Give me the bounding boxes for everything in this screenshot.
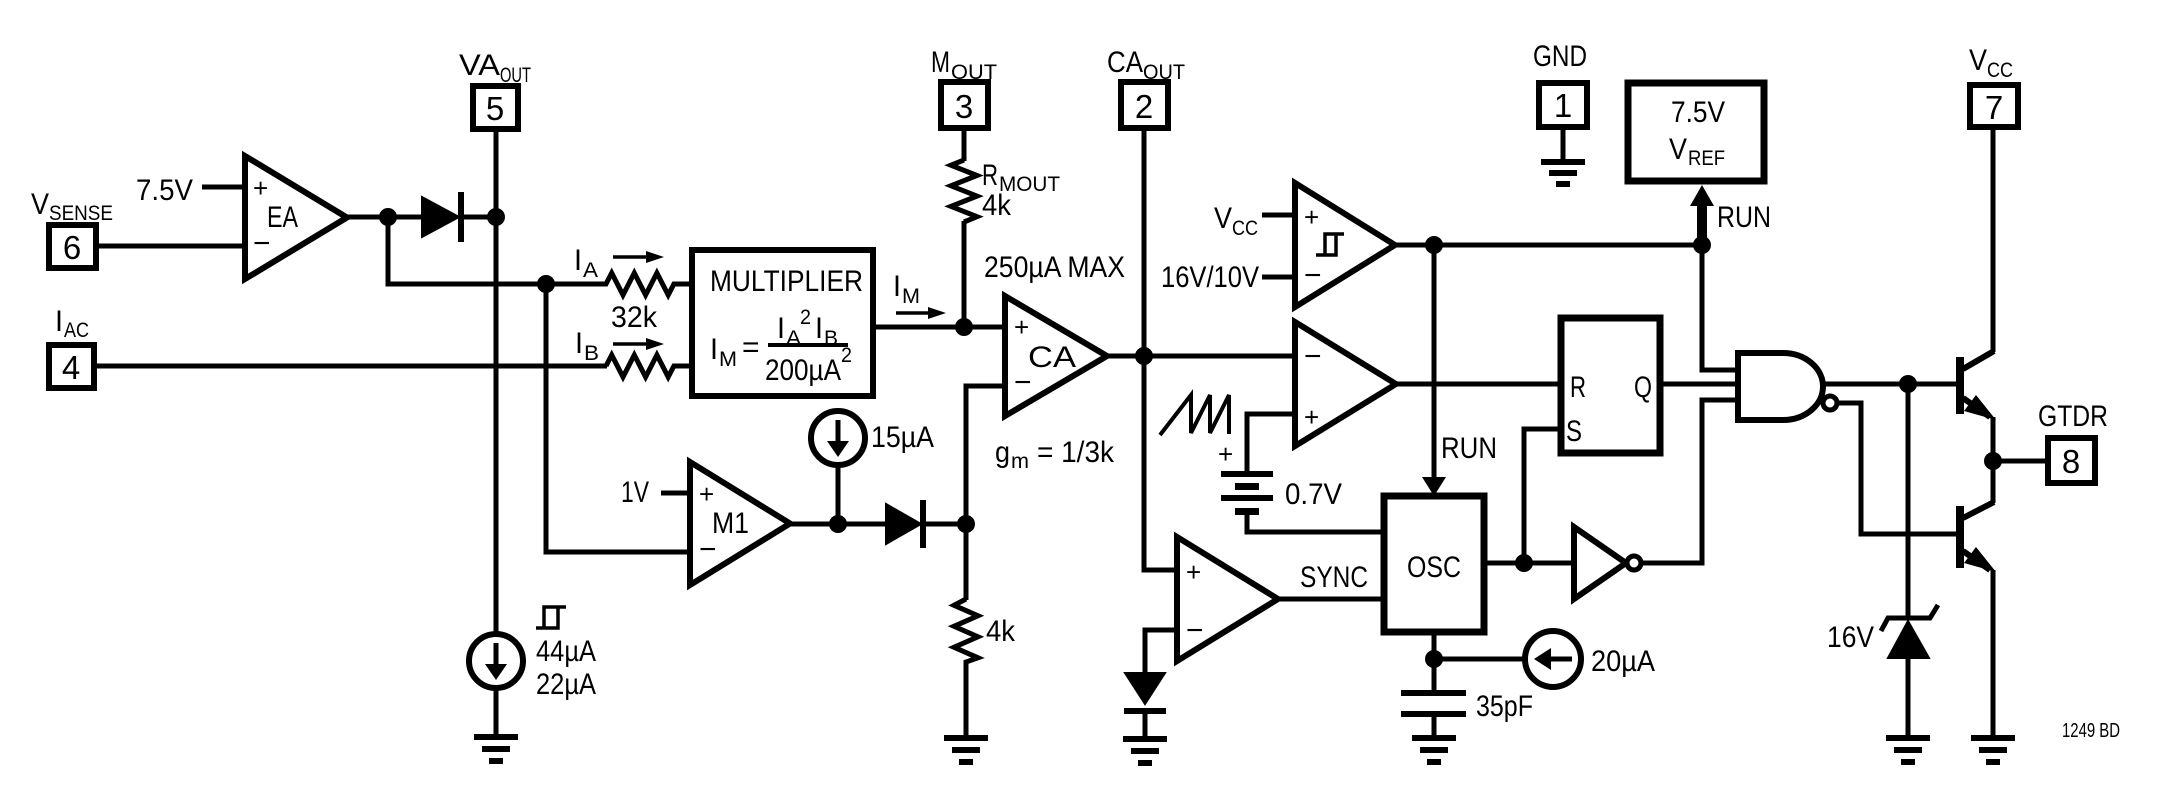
svg-text:M: M	[931, 46, 950, 79]
comparator UVLO	[1295, 183, 1395, 307]
label 32k	[611, 301, 658, 334]
wire OSC output to inverter	[1481, 561, 1577, 566]
wire zener to ground	[1906, 656, 1911, 737]
wire source to ground	[494, 688, 499, 737]
svg-text:5: 5	[486, 90, 504, 127]
wire VCC stub	[1262, 213, 1298, 218]
pin 8 GTDR label	[2038, 400, 2108, 433]
node timing cap junction	[1425, 650, 1443, 668]
svg-text:−: −	[1186, 614, 1204, 647]
arrow over IB resistor	[613, 338, 664, 350]
zener diode 16V	[1881, 605, 1938, 658]
wire node to 4k resistor	[964, 524, 969, 600]
svg-text:+: +	[1304, 202, 1319, 232]
label 1249 BD	[2062, 720, 2120, 742]
op-amp EA	[245, 156, 347, 279]
pin 1 box	[1539, 83, 1587, 127]
wire pin4 to IB resistor	[94, 364, 607, 369]
wire multiplier output to CA plus	[873, 325, 1008, 330]
svg-text:Q: Q	[1634, 371, 1652, 404]
svg-text:2: 2	[800, 306, 811, 329]
svg-text:44µA: 44µA	[536, 635, 596, 668]
svg-text:7.5V: 7.5V	[1671, 96, 1725, 129]
node M1 output junction	[829, 515, 847, 533]
wire diode to 4k node	[924, 522, 966, 527]
svg-text:SENSE: SENSE	[49, 202, 113, 225]
resistor 32k IA	[546, 273, 692, 295]
block 7.5V VREF	[1628, 83, 1764, 181]
svg-text:CA: CA	[1028, 341, 1076, 374]
svg-text:=: =	[742, 331, 760, 364]
wire NAND bubble to lower base	[1837, 403, 1959, 534]
wire SYNC minus to diode	[1145, 630, 1180, 675]
svg-text:15µA: 15µA	[871, 421, 934, 454]
label 0.7V	[1285, 478, 1342, 511]
node GTDR junction	[1984, 452, 2002, 470]
wire diode to pin5 line	[462, 215, 496, 220]
diode D3 to ground	[1124, 673, 1166, 714]
wire pin3 to RMOUT	[962, 128, 967, 161]
wire pin6 to EA minus	[96, 244, 248, 249]
resistor 4k	[954, 599, 978, 737]
svg-text:7: 7	[1985, 89, 2003, 126]
svg-text:= 1/3k: = 1/3k	[1037, 436, 1115, 469]
wire junction down to M1 minus	[546, 284, 692, 552]
svg-text:A: A	[583, 259, 598, 282]
current source 15uA	[811, 411, 865, 465]
label 16V/10V	[1161, 261, 1259, 294]
node CAOUT junction	[1135, 347, 1153, 365]
pin 6 VSENSE label	[31, 188, 113, 225]
pin 3 box	[941, 82, 988, 128]
ground pin1	[1541, 159, 1585, 187]
wire inverter output to NAND bottom input	[1641, 400, 1741, 563]
svg-text:16V/10V: 16V/10V	[1161, 261, 1259, 294]
svg-text:AC: AC	[64, 319, 89, 342]
svg-text:200µA: 200µA	[765, 354, 841, 387]
svg-text:8: 8	[2062, 443, 2080, 480]
node IA junction	[537, 275, 555, 293]
wire battery to OSC	[1247, 514, 1387, 532]
wire EA feedback down-right	[388, 217, 546, 284]
label 44uA	[536, 635, 596, 668]
svg-text:20µA: 20µA	[1591, 645, 1655, 678]
wire pin2 vertical to SYNC plus	[1144, 128, 1180, 570]
wire Q output to NAND	[1660, 382, 1741, 387]
diode D2 after M1	[886, 500, 926, 548]
svg-text:1249 BD: 1249 BD	[2062, 720, 2120, 742]
svg-text:2: 2	[1135, 88, 1153, 125]
label 20uA	[1591, 645, 1655, 678]
wire M1 output	[787, 522, 888, 527]
wire RUN down to OSC	[1422, 245, 1446, 496]
wire pin1 to ground	[1561, 127, 1566, 160]
svg-text:I: I	[55, 305, 63, 338]
arrow IM	[896, 307, 946, 319]
wire RUN junction down to NAND top input	[1702, 245, 1741, 370]
ground emitter	[1971, 735, 2015, 765]
svg-text:−: −	[253, 227, 271, 260]
svg-text:I: I	[893, 270, 901, 303]
svg-text:B: B	[584, 342, 599, 365]
pin 5 box	[473, 86, 518, 129]
svg-text:16V: 16V	[1827, 621, 1874, 654]
wire UVLO output	[1392, 243, 1702, 248]
label 250uA MAX	[984, 251, 1125, 284]
svg-text:SYNC: SYNC	[1300, 561, 1368, 594]
node EA output junction	[379, 208, 397, 226]
svg-text:−: −	[1304, 340, 1322, 373]
svg-text:1V: 1V	[621, 476, 649, 509]
flip-flop RS	[1561, 318, 1660, 453]
pin 8 box	[2048, 438, 2095, 483]
svg-text:I: I	[710, 333, 718, 366]
pin 6 box	[49, 225, 96, 268]
wire emitter to output node	[1991, 417, 1996, 503]
svg-text:EA: EA	[267, 201, 298, 234]
node IM junction	[955, 318, 973, 336]
label 15uA	[871, 421, 934, 454]
label 7.5V	[136, 174, 193, 207]
op-amp M1	[690, 462, 790, 585]
svg-text:250µA MAX: 250µA MAX	[984, 251, 1125, 284]
svg-text:g: g	[995, 436, 1010, 469]
node pin5 line junction	[487, 208, 505, 226]
svg-text:I: I	[777, 312, 785, 345]
svg-text:−: −	[1014, 366, 1032, 399]
wire node to pin8	[1993, 459, 2048, 464]
svg-text:+: +	[699, 479, 714, 509]
op-amp CA	[1005, 296, 1107, 416]
pin 5 VAOUT label	[459, 49, 531, 87]
label 4k	[986, 615, 1016, 648]
svg-text:−: −	[1304, 259, 1322, 292]
wire 15uA source to M1 output	[836, 465, 841, 524]
comparator SYNC	[1177, 537, 1278, 661]
wire CA minus to 4k node	[966, 386, 1008, 520]
svg-text:M1: M1	[712, 507, 749, 540]
node NAND output junction	[1899, 375, 1917, 393]
battery 0.7V	[1218, 439, 1273, 515]
ground timing cap	[1412, 735, 1456, 765]
svg-text:+: +	[1218, 439, 1233, 469]
wire RMOUT to IM node	[962, 221, 967, 327]
svg-text:m: m	[1011, 450, 1029, 473]
block OSC	[1384, 496, 1484, 632]
label IA	[574, 244, 598, 282]
svg-text:3: 3	[955, 88, 973, 125]
wire PWM plus to battery	[1247, 414, 1298, 472]
label IB	[575, 327, 599, 365]
wire junction to 20uA source	[1434, 657, 1526, 662]
svg-text:2: 2	[841, 344, 852, 367]
sawtooth icon	[1160, 395, 1229, 435]
diode D1 after EA	[422, 192, 464, 242]
svg-text:+: +	[253, 173, 268, 203]
svg-text:CC: CC	[1232, 217, 1258, 240]
wire OSC bottom to cap	[1432, 630, 1437, 691]
pin 2 CAOUT label	[1107, 46, 1185, 84]
label 16V	[1827, 621, 1874, 654]
svg-text:V: V	[1969, 44, 1987, 77]
wire pin7 to collector	[1991, 127, 1996, 352]
svg-text:MULTIPLIER: MULTIPLIER	[710, 265, 863, 298]
transistor Q2 lower NPN	[1956, 502, 1996, 572]
wire zener line	[1906, 384, 1911, 618]
svg-text:VA: VA	[459, 49, 500, 82]
svg-text:I: I	[815, 312, 823, 345]
label VCC comparator	[1214, 202, 1258, 240]
label 1V	[621, 476, 649, 509]
svg-text:RUN: RUN	[1717, 201, 1771, 234]
svg-text:4k: 4k	[982, 189, 1012, 222]
label 35pF	[1476, 690, 1533, 723]
pin 4 IAC label	[55, 305, 89, 342]
ground zener	[1886, 735, 1930, 765]
wire 16V/10V stub	[1262, 275, 1298, 280]
svg-text:1: 1	[1554, 87, 1572, 124]
wire PWM output to R input	[1393, 382, 1564, 387]
node 4k junction	[957, 515, 975, 533]
current source 44uA/22uA	[469, 634, 523, 688]
svg-text:S: S	[1566, 415, 1582, 448]
svg-text:+: +	[1014, 312, 1029, 342]
svg-text:4k: 4k	[986, 615, 1016, 648]
label gm = 1/3k	[995, 436, 1115, 473]
svg-text:22µA: 22µA	[536, 668, 596, 701]
label RUN at OSC	[1441, 432, 1497, 465]
wire diode to ground	[1143, 714, 1148, 738]
label 4k RMOUT	[982, 189, 1012, 222]
svg-text:M: M	[902, 285, 920, 308]
label RMOUT	[982, 159, 1060, 196]
svg-text:I: I	[575, 327, 583, 360]
svg-text:V: V	[1669, 133, 1687, 166]
svg-text:I: I	[574, 244, 582, 277]
svg-text:0.7V: 0.7V	[1285, 478, 1342, 511]
svg-text:OSC: OSC	[1407, 551, 1461, 584]
transistor Q1 upper NPN	[1956, 351, 1996, 420]
wire CA output to PWM comparator	[1104, 354, 1298, 359]
svg-text:−: −	[699, 533, 717, 566]
comparator PWM	[1295, 322, 1396, 446]
svg-text:CC: CC	[1987, 59, 2013, 82]
node RUN VREF junction	[1693, 236, 1711, 254]
svg-text:RUN: RUN	[1441, 432, 1497, 465]
current source 20uA	[1525, 631, 1581, 687]
pin 1 GND label	[1533, 40, 1587, 73]
ground 4k	[944, 735, 988, 765]
wire S junction to S input	[1524, 429, 1564, 563]
ground diode	[1123, 736, 1167, 766]
pin 7 box	[1970, 85, 2018, 127]
label IM	[893, 270, 920, 308]
gate NAND	[1738, 353, 1837, 420]
wire lower emitter to ground	[1991, 570, 1996, 737]
wire cap to ground	[1432, 717, 1437, 737]
pin 3 MOUT label	[931, 46, 997, 84]
svg-text:32k: 32k	[611, 301, 658, 334]
svg-text:GND: GND	[1533, 40, 1587, 73]
label SYNC	[1300, 561, 1368, 594]
svg-text:CA: CA	[1107, 46, 1143, 79]
resistor IB	[606, 355, 692, 377]
svg-text:35pF: 35pF	[1476, 690, 1533, 723]
wire RUN up to VREF	[1690, 185, 1714, 245]
svg-text:+: +	[1304, 402, 1319, 432]
svg-text:R: R	[1570, 371, 1586, 404]
inverter gate	[1574, 527, 1641, 599]
node RUN OSC junction	[1425, 236, 1443, 254]
arrow over IA resistor	[613, 251, 664, 263]
svg-text:R: R	[982, 159, 998, 192]
svg-text:7.5V: 7.5V	[136, 174, 193, 207]
svg-text:M: M	[719, 348, 737, 371]
svg-text:6: 6	[63, 229, 81, 266]
wire 7.5V to EA plus	[202, 185, 248, 190]
pin 2 box	[1121, 82, 1168, 128]
svg-text:GTDR: GTDR	[2038, 400, 2108, 433]
node S junction	[1515, 554, 1533, 572]
resistor RMOUT	[951, 160, 977, 222]
label RUN at VREF	[1717, 201, 1771, 234]
capacitor 35pF	[1401, 690, 1466, 717]
svg-text:REF: REF	[1688, 147, 1725, 170]
pin 4 box	[49, 345, 94, 388]
label 22uA	[536, 668, 596, 701]
svg-text:+: +	[1186, 557, 1201, 587]
multiplier block	[692, 250, 873, 396]
ground left	[474, 734, 518, 764]
svg-text:V: V	[31, 188, 49, 221]
pulse icon 44uA	[536, 607, 566, 628]
wire pin5 vertical	[494, 129, 499, 633]
svg-text:V: V	[1214, 202, 1232, 235]
svg-text:4: 4	[62, 349, 80, 386]
pin 7 VCC label	[1969, 44, 2013, 82]
wire NAND output to driver base	[1821, 382, 1959, 387]
wire 1V to M1 plus	[661, 491, 693, 496]
wire EA output	[344, 215, 424, 220]
wire SYNC output to OSC	[1275, 597, 1387, 602]
